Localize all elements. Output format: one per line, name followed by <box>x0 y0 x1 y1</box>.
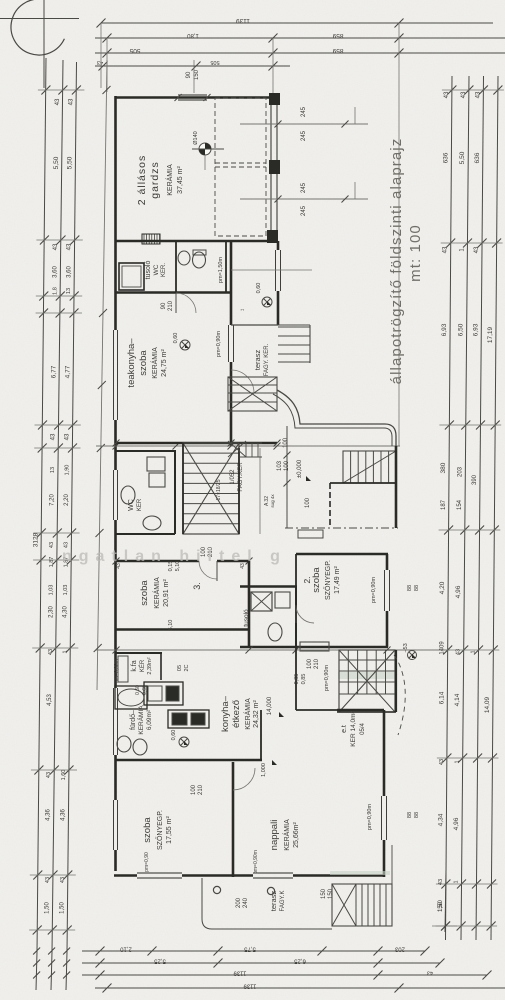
bottom terrace slab <box>202 878 332 929</box>
top dimension line short <box>95 65 290 67</box>
svg-text:1,50: 1,50 <box>60 902 66 914</box>
svg-text:6,77: 6,77 <box>50 365 57 378</box>
left chain tick groups <box>41 86 50 95</box>
svg-text:203: 203 <box>394 946 405 952</box>
svg-text:4,36: 4,36 <box>61 809 67 821</box>
fürdő sink+wc <box>117 736 131 752</box>
svg-text:5,50: 5,50 <box>53 156 60 169</box>
svg-text:k.fa: k.fa <box>131 660 138 671</box>
svg-text:43: 43 <box>438 879 444 885</box>
svg-text:200: 200 <box>236 897 242 908</box>
bottom dimension lines <box>82 950 425 952</box>
right wall of strip + window <box>277 241 280 250</box>
svg-text:terasz: terasz <box>253 350 262 371</box>
svg-text:3128: 3128 <box>32 532 39 547</box>
svg-text:43: 43 <box>53 243 59 250</box>
szoba3 walls <box>113 558 120 565</box>
svg-text:KÉR: KÉR <box>139 659 146 672</box>
lower staircase <box>339 650 395 712</box>
svg-text:KER.: KER. <box>161 263 167 277</box>
svg-text:88: 88 <box>414 585 420 591</box>
svg-text:0,85: 0,85 <box>294 674 300 685</box>
svg-text:1,8: 1,8 <box>52 287 58 295</box>
svg-text:fürdő–: fürdő– <box>130 710 137 730</box>
WC fixtures <box>147 457 165 471</box>
svg-text:5,10: 5,10 <box>168 620 174 631</box>
svg-text:203: 203 <box>457 466 463 477</box>
svg-text:1,60: 1,60 <box>61 770 67 781</box>
svg-text:1,03: 1,03 <box>63 585 69 596</box>
svg-text:−53: −53 <box>403 643 409 652</box>
svg-text:6,25: 6,25 <box>294 958 306 964</box>
survey circle top-left <box>11 0 64 55</box>
flue symbols <box>231 269 312 271</box>
svg-text:100: 100 <box>305 497 311 508</box>
door arc to terrace <box>231 370 254 393</box>
svg-text:szoba: szoba <box>142 817 153 843</box>
teakonyha right wall <box>230 293 233 325</box>
kitchen counters <box>144 682 183 705</box>
top dimension line 1139 <box>101 22 493 24</box>
svg-text:KERÁMIA: KERÁMIA <box>243 698 252 730</box>
svg-text:2,30: 2,30 <box>48 606 54 618</box>
svg-text:1139: 1139 <box>233 970 247 976</box>
corridor walls right of stairs <box>238 448 240 534</box>
dim line y650 <box>96 649 450 651</box>
svg-text:pm=0,90m: pm=0,90m <box>367 804 373 831</box>
svg-text:90: 90 <box>161 302 167 309</box>
bath2 walls <box>240 585 297 588</box>
extension verticals from top dims <box>100 23 102 88</box>
svg-text:mt: 100: mt: 100 <box>407 224 424 282</box>
garage drain symbol <box>199 143 211 155</box>
svg-text:4,20: 4,20 <box>439 581 446 594</box>
wall right of kitchen <box>295 647 297 710</box>
svg-text:88: 88 <box>414 812 420 818</box>
svg-text:150: 150 <box>438 901 444 912</box>
svg-text:43: 43 <box>456 649 462 655</box>
svg-text:1/052: 1/052 <box>230 469 236 485</box>
svg-text:0,60: 0,60 <box>142 685 148 695</box>
svg-text:tusoló: tusoló <box>243 609 250 627</box>
axis line vertical <box>43 0 45 88</box>
terrace lower steps with X <box>228 377 277 411</box>
svg-text:05/4: 05/4 <box>360 723 366 735</box>
left dimension chain lines <box>37 58 46 952</box>
dashed arc right of stairs <box>394 655 405 735</box>
svg-text:43: 43 <box>51 433 57 440</box>
svg-text:0,60: 0,60 <box>135 685 141 695</box>
garage right windows double lines <box>270 104 272 161</box>
svg-text:43: 43 <box>49 542 55 548</box>
svg-text:1409: 1409 <box>440 641 446 655</box>
svg-text:1139: 1139 <box>243 983 257 989</box>
svg-text:100: 100 <box>307 658 313 669</box>
WC room walls <box>116 450 176 452</box>
column circles <box>213 886 220 893</box>
svg-text:WC: WC <box>128 499 135 511</box>
svg-text:17×18/25: 17×18/25 <box>216 479 222 500</box>
svg-text:4,36: 4,36 <box>46 809 52 821</box>
garage side dim lines right <box>240 123 368 125</box>
szoba2 walls <box>296 553 388 556</box>
svg-text:nappali: nappali <box>269 820 280 851</box>
svg-text:ngatlan hiltel g: ngatlan hiltel g <box>62 548 287 565</box>
svg-text:szoba: szoba <box>138 350 149 376</box>
svg-text:100: 100 <box>283 437 289 448</box>
svg-text:43: 43 <box>444 91 450 98</box>
svg-text:43: 43 <box>443 246 449 253</box>
svg-text:1,80: 1,80 <box>187 32 199 38</box>
landing steps stub <box>240 442 262 444</box>
svg-text:állapotrögzítő földszinti alap: állapotrögzítő földszinti alaprajz <box>388 138 405 385</box>
svg-text:636: 636 <box>474 152 481 163</box>
wall y760 <box>116 759 262 762</box>
main staircase <box>183 443 239 534</box>
svg-text:2,10: 2,10 <box>120 946 132 952</box>
svg-text:245: 245 <box>301 205 307 216</box>
svg-text:pm=0,90: pm=0,90 <box>144 852 150 872</box>
svg-text:24,32 m²: 24,32 m² <box>253 700 260 728</box>
svg-text:20,91 m²: 20,91 m² <box>163 579 170 607</box>
svg-text:szoba: szoba <box>139 580 150 606</box>
svg-text:6,09m²: 6,09m² <box>146 709 153 730</box>
svg-text:154: 154 <box>457 499 463 510</box>
svg-text:4,53: 4,53 <box>47 694 53 706</box>
svg-text:14,09: 14,09 <box>484 696 491 713</box>
svg-text:2 állásos: 2 állásos <box>136 155 148 205</box>
svg-text:1139: 1139 <box>236 17 250 24</box>
svg-text:210: 210 <box>314 658 320 669</box>
svg-text:103: 103 <box>277 460 283 471</box>
svg-text:5,75: 5,75 <box>244 946 256 952</box>
svg-text:1: 1 <box>471 650 477 653</box>
svg-text:88: 88 <box>407 812 413 818</box>
axis line horizontal <box>0 18 79 20</box>
svg-text:150: 150 <box>328 888 334 899</box>
svg-text:245: 245 <box>301 106 307 117</box>
green marker line bottom <box>330 871 390 875</box>
fürdő bathtub <box>115 686 147 709</box>
svg-text:43: 43 <box>46 772 52 778</box>
svg-text:0,60: 0,60 <box>173 333 179 344</box>
svg-text:tusoló: tusoló <box>145 261 152 280</box>
svg-text:210: 210 <box>168 300 174 311</box>
svg-text:43: 43 <box>55 98 61 105</box>
svg-text:FAGY. KER.: FAGY. KER. <box>264 343 270 376</box>
svg-text:43: 43 <box>60 877 66 883</box>
svg-text:pm=0,90m: pm=0,90m <box>324 665 330 692</box>
svg-text:4,96: 4,96 <box>453 817 460 830</box>
nappali window right <box>381 796 383 840</box>
svg-text:teakonyha–: teakonyha– <box>126 338 137 388</box>
svg-text:pm=0,90m: pm=0,90m <box>216 331 222 358</box>
svg-text:240: 240 <box>243 897 249 908</box>
svg-text:SZŐNYEGP.: SZŐNYEGP. <box>323 560 332 600</box>
bath strip walls <box>116 291 232 294</box>
svg-text:↕: ↕ <box>240 309 246 312</box>
garage dashed canopy rectangle <box>215 98 266 236</box>
garage right wall pillars <box>270 94 280 105</box>
svg-text:FAGY.K: FAGY.K <box>280 891 286 912</box>
level marker +53 <box>408 651 417 660</box>
svg-text:0,85: 0,85 <box>301 674 307 685</box>
svg-text:1,03: 1,03 <box>49 585 55 596</box>
svg-text:KERÁMIA: KERÁMIA <box>152 577 161 609</box>
svg-text:43: 43 <box>427 970 433 976</box>
terrace upper steps <box>278 326 310 328</box>
svg-text:1: 1 <box>455 760 461 763</box>
svg-text:859: 859 <box>332 47 343 54</box>
svg-text:210: 210 <box>198 784 204 795</box>
svg-text:636: 636 <box>442 152 449 163</box>
terrace slab edge <box>231 324 278 326</box>
svg-text:étkező: étkező <box>231 700 242 728</box>
wall y443 <box>116 442 277 445</box>
svg-text:1: 1 <box>62 650 68 653</box>
svg-text:2,20: 2,20 <box>64 494 70 506</box>
svg-text:KERÁMIA: KERÁMIA <box>150 347 159 379</box>
svg-text:WC: WC <box>153 264 160 275</box>
garage bottom vent hatch <box>142 234 160 244</box>
garage top window <box>178 94 207 96</box>
szoba2 window right <box>384 570 386 611</box>
bottom wall (segmented) <box>114 874 137 877</box>
svg-text:1,50: 1,50 <box>45 902 51 914</box>
top dimension line 505/859 <box>95 52 505 54</box>
svg-text:4,14: 4,14 <box>454 693 461 706</box>
svg-text:konyha–: konyha– <box>220 695 231 732</box>
svg-text:pm=0,90m: pm=0,90m <box>253 850 259 874</box>
svg-text:43: 43 <box>475 91 481 98</box>
svg-text:17,19: 17,19 <box>487 326 494 343</box>
svg-text:05: 05 <box>177 665 183 671</box>
svg-text:szoba: szoba <box>311 567 322 593</box>
threshold <box>298 530 323 538</box>
svg-text:4,34: 4,34 <box>437 813 444 826</box>
window on teakonyha right <box>228 325 230 362</box>
outer wall top (garage) <box>116 96 279 99</box>
level marker 2 <box>272 760 277 765</box>
svg-text:43: 43 <box>97 59 103 65</box>
nappali right wall <box>383 710 386 796</box>
bottom windows <box>137 872 182 874</box>
bath2 fixtures <box>251 592 272 611</box>
svg-text:6,93: 6,93 <box>441 323 448 336</box>
bathtub <box>119 263 144 290</box>
svg-text:5,50: 5,50 <box>459 151 466 164</box>
svg-text:505: 505 <box>129 47 140 54</box>
svg-text:4,77: 4,77 <box>64 365 71 378</box>
svg-text:13: 13 <box>50 467 56 473</box>
svg-text:3,60: 3,60 <box>66 266 72 278</box>
svg-text:43: 43 <box>68 98 74 105</box>
curved canopy wall <box>277 390 396 446</box>
garage bottom wall <box>116 240 278 243</box>
wc toilet <box>193 252 206 268</box>
svg-text:1,87: 1,87 <box>49 557 55 568</box>
svg-text:Ø140: Ø140 <box>193 131 199 144</box>
svg-text:245: 245 <box>301 130 307 141</box>
svg-text:pm=1,50m: pm=1,50m <box>218 257 224 284</box>
svg-text:3,60: 3,60 <box>53 266 59 278</box>
entry stairs <box>343 451 396 483</box>
inner left dim line <box>97 60 107 690</box>
svg-text:pm=0,90m: pm=0,90m <box>114 659 120 683</box>
svg-text:sug 4x: sug 4x <box>270 494 275 508</box>
svg-text:859: 859 <box>332 32 343 39</box>
svg-text:43: 43 <box>67 243 73 250</box>
svg-text:17,55 m²: 17,55 m² <box>166 816 173 844</box>
svg-text:1,000: 1,000 <box>261 763 267 777</box>
svg-text:terasz: terasz <box>269 891 278 912</box>
svg-text:1: 1 <box>454 880 460 883</box>
pantry walls <box>116 652 162 654</box>
svg-text:13: 13 <box>66 288 72 294</box>
svg-text:245: 245 <box>301 182 307 193</box>
svg-text:KER 14,0m²: KER 14,0m² <box>350 710 357 746</box>
svg-text:0,60: 0,60 <box>171 730 177 741</box>
svg-text:380: 380 <box>440 462 447 473</box>
outer wall left (segmented by windows) <box>114 96 117 330</box>
svg-text:6,50: 6,50 <box>458 323 465 336</box>
wc sink <box>178 251 190 265</box>
svg-text:43: 43 <box>474 246 480 253</box>
green marker stripe <box>338 672 395 679</box>
svg-text:25,66m²: 25,66m² <box>293 821 300 847</box>
svg-text:17,49 m²: 17,49 m² <box>334 566 341 594</box>
svg-text:43: 43 <box>45 877 51 883</box>
svg-text:90: 90 <box>186 71 192 78</box>
svg-text:505: 505 <box>210 59 219 65</box>
svg-text:150: 150 <box>194 69 200 80</box>
double door on y647 <box>300 642 329 651</box>
svg-text:4,30: 4,30 <box>63 606 69 618</box>
dim line through building y446 <box>96 445 400 447</box>
top dimension line 859 <box>95 37 505 39</box>
svg-text:KERÁMIA: KERÁMIA <box>165 164 174 196</box>
svg-text:6,14: 6,14 <box>438 691 445 704</box>
right chain tick groups <box>447 86 456 95</box>
svg-text:43: 43 <box>439 759 445 765</box>
svg-text:7,20: 7,20 <box>50 494 56 506</box>
svg-text:pm=0,90m: pm=0,90m <box>371 577 377 604</box>
svg-text:6,93: 6,93 <box>472 323 479 336</box>
svg-text:43: 43 <box>48 649 54 655</box>
svg-text:KERÁMIA: KERÁMIA <box>282 819 291 851</box>
right dimension chain lines <box>446 76 453 940</box>
svg-text:2C: 2C <box>184 664 190 671</box>
svg-text:4,96: 4,96 <box>455 585 462 598</box>
svg-text:gardzs: gardzs <box>149 161 161 199</box>
bottom terrace steps <box>332 884 392 926</box>
svg-text:24,75 m²: 24,75 m² <box>161 349 168 377</box>
svg-text:KERÁMIA: KERÁMIA <box>136 705 145 735</box>
vestibule walls below stairs <box>330 482 396 484</box>
svg-text:e.t: e.t <box>341 725 348 733</box>
svg-text:KER: KER <box>137 498 143 511</box>
bath2 door arcs <box>296 605 314 623</box>
svg-text:43: 43 <box>65 433 71 440</box>
interior wall szoba/nappali <box>232 762 235 877</box>
svg-text:187: 187 <box>441 499 447 510</box>
svg-text:88: 88 <box>407 585 413 591</box>
svg-text:3.: 3. <box>192 582 202 590</box>
svg-text:0,60: 0,60 <box>256 283 262 294</box>
svg-text:2,39m²: 2,39m² <box>147 657 153 674</box>
svg-text:43: 43 <box>461 91 467 98</box>
svg-text:150: 150 <box>321 888 327 899</box>
svg-text:390: 390 <box>472 474 478 485</box>
svg-text:1,90: 1,90 <box>64 465 70 476</box>
svg-text:100: 100 <box>191 784 197 795</box>
svg-text:5,50: 5,50 <box>67 156 74 169</box>
svg-text:14,000: 14,000 <box>267 696 273 715</box>
svg-text:37,45 m²: 37,45 m² <box>177 166 184 194</box>
svg-text:±0,000: ±0,000 <box>297 459 303 478</box>
svg-text:5,25: 5,25 <box>154 958 166 964</box>
svg-text:SZŐNYEGP.: SZŐNYEGP. <box>155 810 164 850</box>
right outer wall below canopy <box>395 446 398 528</box>
